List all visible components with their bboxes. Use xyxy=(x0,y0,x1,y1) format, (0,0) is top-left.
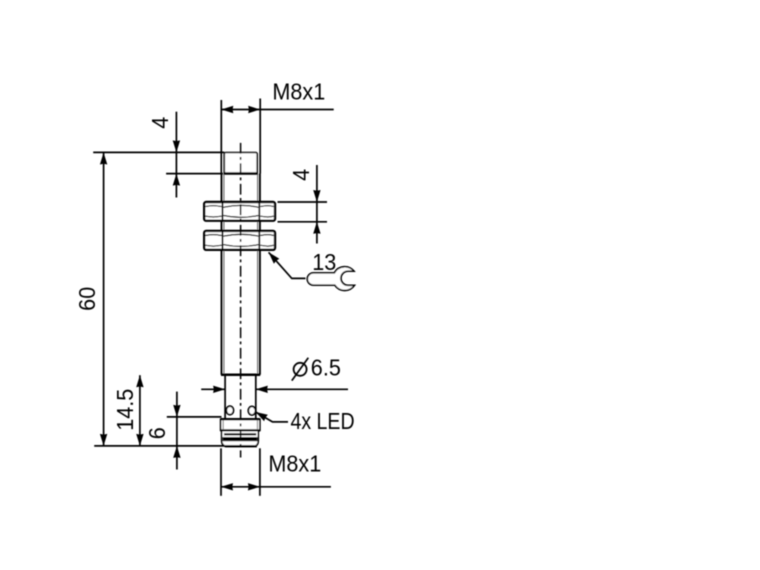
dimension M8x1 top: line and arrows xyxy=(221,106,333,113)
extension line: LED band top (6 dim) xyxy=(167,416,222,418)
dimension 60 line xyxy=(100,153,107,446)
svg-text:6: 6 xyxy=(144,427,170,439)
dimension 14.5 line xyxy=(136,375,143,446)
sensing face cap xyxy=(224,153,258,174)
hex nut 1 xyxy=(204,202,275,221)
dimension M8x1 top: extension line left xyxy=(220,100,222,174)
svg-text:13: 13 xyxy=(312,249,336,275)
wrench symbol (spanner size 13) xyxy=(307,267,354,291)
thread major diameter line right xyxy=(259,174,261,375)
svg-text:4x LED: 4x LED xyxy=(291,409,355,435)
collar xyxy=(221,419,260,430)
dimension 4 top line xyxy=(173,112,180,198)
extension line: thread start (4 dim) xyxy=(166,173,223,175)
dimension M8x1 top: extension line right xyxy=(259,99,261,174)
extension line: nut1 top (4 dim right) xyxy=(278,201,328,203)
connector body xyxy=(222,432,259,447)
dimension Ø6.5: arrows and leader xyxy=(201,386,348,393)
svg-text:60: 60 xyxy=(74,287,100,311)
hex nut 2 xyxy=(204,231,275,250)
svg-text:14.5: 14.5 xyxy=(113,389,139,431)
dimension M8x1 bottom: extension line left xyxy=(220,448,222,496)
extension line: bottom face (60 / 14.5 / 6 dims) xyxy=(94,445,225,447)
thread root line right xyxy=(257,174,259,375)
leader 4x LED: arrow and line xyxy=(254,409,288,422)
svg-text:M8x1: M8x1 xyxy=(272,79,325,105)
thread major diameter line left xyxy=(221,174,223,375)
barrel side left xyxy=(224,375,226,419)
svg-text:M8x1: M8x1 xyxy=(268,451,321,477)
dimension M8x1 bottom: extension line right xyxy=(259,448,261,496)
svg-text:6.5: 6.5 xyxy=(311,355,341,381)
extension line: top face (60 dim) xyxy=(93,151,224,153)
thread end line xyxy=(221,374,260,377)
centerline (dash-dot axis) xyxy=(240,143,242,458)
dimension M8x1 bottom: line and arrows xyxy=(221,483,331,490)
LED right xyxy=(248,406,255,415)
dimension 4 right line xyxy=(313,165,320,244)
svg-text:4: 4 xyxy=(289,169,315,181)
extension line: nut1 bottom (4 dim right) xyxy=(278,221,328,223)
barrel side right xyxy=(255,375,257,419)
dimension Ø6.5 text: diameter symbol xyxy=(292,358,309,381)
thread root line left xyxy=(223,174,225,375)
dimension 6 line xyxy=(173,392,180,470)
svg-text:4: 4 xyxy=(148,117,174,129)
leader 13: arrow and line to wrench xyxy=(266,250,306,279)
LED left xyxy=(226,406,233,415)
